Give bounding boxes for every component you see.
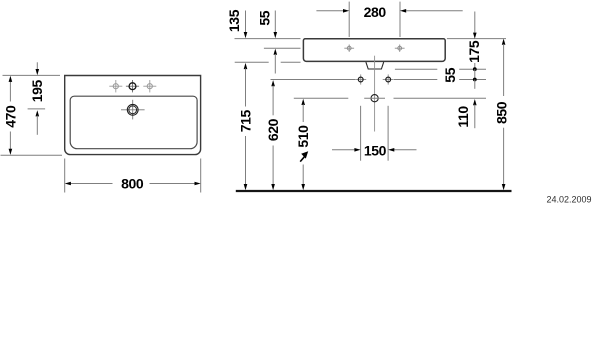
vertical centre line xyxy=(374,56,376,132)
dim 150 label xyxy=(364,142,387,158)
fixing level line right b xyxy=(459,79,486,81)
svg-text:510: 510 xyxy=(295,125,311,148)
dim 135 arrow xyxy=(244,32,248,38)
svg-text:24.02.2009: 24.02.2009 xyxy=(546,195,591,205)
dim 175 dot xyxy=(473,67,477,71)
dim 850 label xyxy=(494,101,510,124)
dim 620 lower arrow xyxy=(271,184,275,190)
right tap hole mark (front view) xyxy=(395,45,405,52)
dim 470 bottom extension line xyxy=(1,154,63,156)
dim 175 upper line xyxy=(474,12,476,34)
dim 850 lower arrow xyxy=(502,184,506,190)
dim 175 label xyxy=(466,40,482,63)
dim 715 label xyxy=(237,110,253,133)
dim 175 line to dot xyxy=(474,63,476,69)
dim 175 arrow xyxy=(473,33,477,39)
dim 55 lower tail xyxy=(274,54,276,74)
svg-text:55: 55 xyxy=(442,67,458,82)
dim 510 line lower segment xyxy=(302,165,304,185)
svg-text:620: 620 xyxy=(265,118,281,141)
basin bottom level line left a xyxy=(235,61,269,63)
dim 715 upper arrow xyxy=(244,63,248,69)
right fixing hole (front view) xyxy=(383,74,394,84)
dim 850 line upper segment xyxy=(503,44,505,96)
floor line xyxy=(236,190,512,192)
svg-text:280: 280 xyxy=(364,4,387,20)
dim 800 right arrow xyxy=(195,182,201,186)
dim 55R dot xyxy=(473,78,477,82)
dim 150 left extension line xyxy=(360,106,362,161)
fixing level line left xyxy=(271,79,356,81)
dim 195 lower arrow xyxy=(36,110,40,116)
dim 800 label xyxy=(121,176,144,192)
dim 195 drain level tick xyxy=(28,108,45,110)
dim 510 line upper segment xyxy=(302,104,304,122)
washbasin front view body xyxy=(303,39,445,62)
dim 850 line lower segment xyxy=(503,128,505,185)
dim 715 line upper segment xyxy=(245,68,247,106)
dim 715 lower arrow xyxy=(244,184,248,190)
basin bottom level line left b xyxy=(281,61,301,63)
dim 470 line lower segment xyxy=(9,132,11,150)
dim 55 lower arrow xyxy=(274,49,278,55)
dim 715 line lower segment xyxy=(245,136,247,185)
dim 470 lower arrow xyxy=(9,149,13,155)
fixing level line right a xyxy=(394,79,437,81)
dim 150 right arrow xyxy=(388,148,394,152)
basin top level line right xyxy=(447,38,506,40)
dim 470 label xyxy=(3,105,19,128)
dim 110 label xyxy=(455,106,471,128)
dim 135 line xyxy=(245,11,247,34)
dim 280 left extension line xyxy=(348,2,350,37)
drain hole (front view) xyxy=(371,95,378,102)
dim 195 lower tail xyxy=(36,116,38,135)
tap level line left xyxy=(264,47,301,49)
drain level line c xyxy=(394,97,487,99)
svg-text:55: 55 xyxy=(256,10,272,25)
dim 150 right tail xyxy=(394,149,417,151)
dim 280 line right tail xyxy=(406,10,463,12)
dim 110 stub below dot xyxy=(474,80,476,89)
dim 150 left arrow xyxy=(354,148,360,152)
dim 800 line left segment xyxy=(70,183,113,185)
svg-text:800: 800 xyxy=(121,176,144,192)
dim 620 upper arrow xyxy=(271,80,275,86)
dim 800 left extension line xyxy=(64,159,66,193)
dim 280 right extension line xyxy=(399,2,401,37)
overflow outlet trapezoid xyxy=(366,62,384,69)
svg-text:470: 470 xyxy=(3,105,19,128)
dim 280 label xyxy=(364,4,387,20)
dim 620 label xyxy=(265,118,281,141)
dim 55 upper arrow xyxy=(274,32,278,38)
dim 280 left arrow xyxy=(343,9,349,13)
date stamp xyxy=(546,195,591,205)
left tap hole mark (front view) xyxy=(344,45,354,52)
dim 280 line left tail xyxy=(316,10,343,12)
svg-text:175: 175 xyxy=(466,40,482,63)
dim 110 arrow xyxy=(473,99,477,105)
dim 800 line right segment xyxy=(150,183,196,185)
dim 800 right extension line xyxy=(200,159,202,193)
dim 510 upper arrow xyxy=(301,99,305,105)
basin top level line left xyxy=(235,38,301,40)
dim 55R label xyxy=(442,67,458,82)
dim 470 upper arrow xyxy=(9,76,13,82)
svg-text:850: 850 xyxy=(494,101,510,124)
dim 195 upper tail xyxy=(36,62,38,70)
dim 510 slanted arrow xyxy=(300,151,308,161)
drain level line b xyxy=(364,97,385,99)
right pre-punched tap hole (top view) xyxy=(143,80,156,92)
dim 55 upper line xyxy=(274,11,276,34)
svg-text:195: 195 xyxy=(29,80,45,103)
svg-text:150: 150 xyxy=(364,142,387,158)
dim 195 label xyxy=(29,80,45,103)
dim 620 line lower segment xyxy=(272,146,274,185)
drain level line a xyxy=(294,97,349,99)
overflow level line right b xyxy=(459,68,486,70)
dim 510 label xyxy=(295,125,311,148)
washbasin top view outer rim xyxy=(65,76,201,155)
drain hole (top view) xyxy=(121,100,145,120)
dim 150 right extension line xyxy=(387,106,389,161)
left pre-punched tap hole (top view) xyxy=(109,80,122,92)
dim 150 left tail xyxy=(332,149,355,151)
dim 55 label xyxy=(256,10,272,25)
centre tap hole (top view) xyxy=(126,80,139,92)
dim 510 lower arrow xyxy=(301,184,305,190)
dim 55R line between dots xyxy=(474,69,476,79)
washbasin top view inner basin xyxy=(70,96,197,149)
svg-text:715: 715 xyxy=(237,110,253,133)
dim 470 top extension line xyxy=(3,74,61,76)
dim 850 upper arrow xyxy=(502,39,506,45)
overflow level line right a xyxy=(395,68,437,70)
dim 110 tail xyxy=(474,105,476,129)
dim 280 right arrow xyxy=(400,9,406,13)
dim 620 line upper segment xyxy=(272,86,274,116)
left fixing hole (front view) xyxy=(355,74,366,84)
dim 135 label xyxy=(226,9,242,32)
dim 195 upper arrow xyxy=(36,69,40,75)
dim 800 left arrow xyxy=(65,182,71,186)
dim 470 line upper segment xyxy=(9,81,11,102)
svg-text:135: 135 xyxy=(226,9,242,32)
svg-text:110: 110 xyxy=(455,106,471,128)
